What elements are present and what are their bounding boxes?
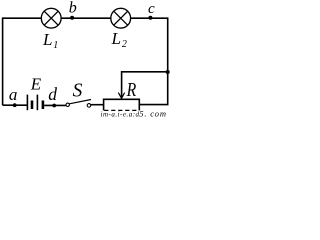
wire top middle segment — [61, 17, 111, 19]
wire switch to rheostat — [91, 104, 104, 106]
wire bottom-left segment — [3, 104, 27, 106]
wire top-right segment, right rail and bottom-right lead — [131, 18, 168, 104]
wire battery to switch — [44, 104, 66, 106]
svg-text:L: L — [111, 29, 121, 48]
battery E — [27, 95, 43, 111]
node b — [70, 16, 74, 20]
svg-text:L: L — [42, 30, 52, 49]
svg-text:2: 2 — [122, 39, 127, 50]
svg-text:1: 1 — [53, 40, 58, 51]
svg-text:d: d — [48, 84, 57, 104]
node c — [148, 16, 152, 20]
lamp L2 — [111, 8, 131, 28]
node a — [13, 103, 17, 107]
lamp L1 — [41, 8, 61, 28]
svg-text:5. com: 5. com — [139, 109, 166, 118]
wire left rail and top-left segment — [3, 18, 42, 105]
node d — [52, 104, 56, 108]
rheostat wiper wire — [122, 72, 168, 97]
svg-text:R: R — [126, 79, 136, 101]
svg-text:a: a — [9, 85, 18, 104]
rheostat R body — [104, 99, 140, 110]
svg-text:b: b — [69, 0, 77, 17]
wiper arrowhead — [118, 93, 124, 99]
junction node on right rail — [166, 70, 170, 74]
svg-text:c: c — [148, 1, 155, 17]
svg-text:E: E — [30, 75, 42, 94]
switch S — [66, 100, 91, 108]
svg-text:S: S — [73, 80, 83, 102]
svg-text:im-a.i-e.a:d: im-a.i-e.a:d — [101, 111, 140, 117]
